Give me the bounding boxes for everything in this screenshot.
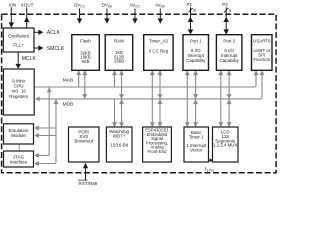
svg-text:Port 2: Port 2 — [223, 38, 235, 43]
svg-text:Interface: Interface — [10, 160, 28, 165]
svg-text:USART0: USART0 — [253, 38, 271, 43]
svg-text:P1: P1 — [187, 2, 193, 7]
svg-text:Oscillators: Oscillators — [8, 34, 30, 39]
svg-text:8KB: 8KB — [82, 59, 90, 64]
svg-text:Module: Module — [11, 133, 26, 138]
svg-text:P2: P2 — [222, 2, 228, 7]
svg-text:Timer_A3: Timer_A3 — [149, 39, 168, 44]
svg-text:Brownout: Brownout — [75, 139, 94, 144]
svg-text:Capability: Capability — [186, 58, 206, 63]
svg-text:WDT+: WDT+ — [113, 133, 126, 138]
svg-text:SMCLK: SMCLK — [47, 46, 65, 52]
svg-text:RST/NMI: RST/NMI — [79, 181, 98, 186]
svg-text:1,2,3,4 MUX: 1,2,3,4 MUX — [213, 143, 237, 148]
svg-text:256B: 256B — [114, 59, 124, 64]
svg-text:3 CC Reg: 3 CC Reg — [149, 49, 169, 54]
svg-text:Registers: Registers — [9, 94, 29, 99]
svg-text:15/16-Bit: 15/16-Bit — [110, 143, 128, 148]
svg-text:Function: Function — [253, 57, 270, 62]
svg-text:MAB: MAB — [63, 78, 73, 84]
svg-text:LCD: LCD — [207, 169, 214, 173]
svg-text:Capability: Capability — [220, 58, 240, 63]
svg-text:Flash: Flash — [80, 39, 91, 44]
svg-text:XIN: XIN — [8, 2, 16, 7]
svg-text:Front-End: Front-End — [148, 149, 168, 154]
svg-text:Vector: Vector — [190, 147, 203, 152]
svg-text:FLL+: FLL+ — [13, 43, 24, 48]
svg-text:MDB: MDB — [63, 102, 74, 108]
svg-text:MCLK: MCLK — [22, 56, 37, 62]
svg-text:RAM: RAM — [114, 39, 124, 44]
svg-text:ACLK: ACLK — [47, 30, 61, 36]
svg-text:Port 1: Port 1 — [190, 38, 202, 43]
svg-text:XOUT: XOUT — [21, 2, 34, 7]
svg-text:Timer 1: Timer 1 — [189, 134, 204, 139]
